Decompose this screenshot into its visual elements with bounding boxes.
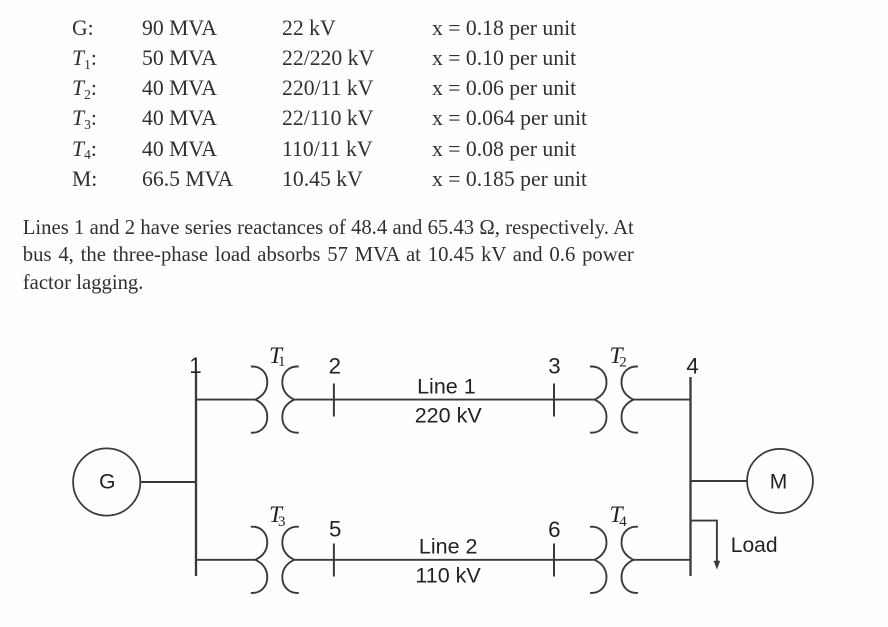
wire T4 to bus 4 — [634, 559, 691, 561]
svg-text:Line 1: Line 1 — [417, 374, 476, 398]
svg-text:2: 2 — [619, 354, 627, 370]
svg-text:4: 4 — [686, 353, 698, 378]
svg-text:1: 1 — [278, 354, 286, 370]
wire bus 1 to T1 — [196, 399, 256, 401]
svg-text:6: 6 — [548, 517, 560, 542]
table row T4 — [0, 138, 1, 140]
load arrowhead — [714, 561, 721, 570]
table row M — [0, 168, 1, 170]
svg-text:220 kV: 220 kV — [415, 404, 483, 428]
transformer T1 — [251, 366, 299, 432]
svg-text:5: 5 — [329, 517, 341, 542]
transformer T2 — [590, 366, 638, 432]
svg-text:M: M — [770, 471, 788, 494]
svg-text:Line 2: Line 2 — [419, 534, 478, 558]
table row G — [0, 17, 1, 19]
load feeder wire — [691, 521, 717, 563]
transformer T3 — [251, 527, 299, 593]
svg-text:G: G — [99, 471, 115, 494]
svg-text:3: 3 — [548, 354, 560, 379]
wire bus 4 to motor — [691, 480, 748, 482]
wire generator to bus 1 — [141, 481, 196, 483]
bus 6 tick — [553, 544, 555, 577]
transformer T4 — [590, 527, 638, 593]
bus 3 tick — [553, 384, 555, 417]
table row T2 — [0, 77, 1, 79]
motor M circle — [747, 449, 813, 513]
svg-text:1: 1 — [189, 353, 201, 378]
generator G circle — [73, 448, 140, 515]
bus 4 — [689, 377, 691, 576]
wire T2 to bus 4 — [634, 399, 691, 401]
svg-text:110 kV: 110 kV — [415, 563, 481, 587]
svg-text:3: 3 — [278, 514, 286, 530]
table row T3 — [0, 107, 1, 109]
table row T1 — [0, 47, 1, 49]
wire T1 to T2 (Line 1) — [294, 399, 594, 401]
bus 2 tick — [333, 384, 335, 417]
wire bus 1 to T3 — [196, 559, 256, 561]
paragraph — [23, 215, 634, 298]
bus 1 — [195, 371, 197, 576]
svg-text:Load: Load — [731, 534, 778, 557]
wire T3 to T4 (Line 2) — [294, 559, 594, 561]
svg-text:2: 2 — [329, 353, 341, 378]
bus 5 tick — [333, 544, 335, 577]
svg-text:4: 4 — [619, 514, 627, 530]
